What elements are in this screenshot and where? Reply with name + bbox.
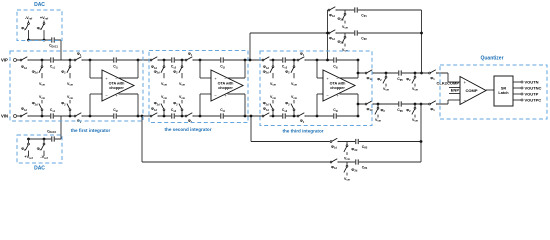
svg-text:DAC: DAC [34,166,45,172]
node branch C tap on bottom rail [250,115,253,118]
switch phi-p +Vref branch (bottom DAC) [28,139,30,156]
switch phi2d to Vcm branch D [346,162,348,166]
switch phi-n -Vref branch (bottom DAC) [43,139,45,156]
node OTA input tap bottom integrator 2 [199,115,202,118]
node OTA input tap bottom integrator 1 [89,115,92,118]
wire output VOUTPC [513,99,521,101]
svg-text:Cff3: Cff3 [362,145,368,150]
svg-text:Φp: Φp [21,27,26,32]
switch phi1d branch A [328,9,336,12]
wire branches A/B down to summing node [421,10,423,73]
svg-text:the first integrator: the first integrator [71,128,111,133]
svg-text:VOUTNC: VOUTNC [525,86,542,91]
wire feedback vertical bottom integrator 2 [244,94,246,116]
capacitor Cff3 [355,139,359,145]
switch phi-p -Vref branch (top DAC) [28,21,30,41]
node branch A tap on top rail [326,59,329,62]
DAC (bottom) dashed box [17,135,62,163]
switch phi1 top integrator 2 [185,59,193,62]
wire tap to OTA bottom input integrator 1 [89,94,91,116]
switch phi1d top-rail entry integrator 2 [150,59,158,62]
wire feedback vertical top integrator 3 [357,60,359,78]
svg-text:chopper: chopper [330,86,345,90]
terminal VOUTNC [521,87,523,89]
capacitor i5 (top integration cap) integrator 3 [333,57,337,63]
switch phi2d to Vcm from bottom node j1 integrator 1 [41,110,43,116]
wire feedforward branch D [142,161,421,163]
switch phi2 to Vcm from top node j2 integrator 3 [293,60,295,66]
switch phi2d to Vcm from top node j1 integrator 3 [272,60,274,66]
node branch C join [420,140,423,143]
svg-text:VIP: VIP [1,57,8,62]
node j1 top integrator 3 [272,59,275,62]
second integrator dashed box [149,51,248,123]
switch phi2d to Vcm from top node j1 integrator 2 [163,60,165,66]
wire feedback vertical bottom integrator 3 [357,94,359,116]
node j2 bottom integrator 3 [293,115,296,118]
capacitor i1 (top integration cap) integrator 1 [113,57,117,63]
switch phi1d top-rail entry integrator 3 [262,59,270,62]
wire tap to OTA top input integrator 3 [316,60,318,78]
third integrator dashed box [260,51,372,126]
capacitor Cff1 [354,7,358,13]
switch phi1d bottom-rail entry integrator 2 [150,115,158,118]
capacitor s2 (top sampling cap) integrator 2 [171,57,175,63]
svg-text:Φp: Φp [21,147,26,152]
switch phi1 quantizer bottom entry [428,103,436,106]
switch phi1d branch C [330,140,338,143]
svg-text:Φ1: Φ1 [430,108,435,113]
node +Vref branch (bottom DAC) [27,138,30,141]
wire OTA1 top output [119,77,139,79]
svg-text:Φ2: Φ2 [377,78,382,83]
node +Vref branch (top DAC) [43,39,46,42]
terminal VIP [14,59,17,62]
wire feedforward branch B [250,32,422,34]
switch phi2d to Vcm branch A [344,10,346,14]
switch phi2 to Vcm bottom chain stub 1 [377,104,379,108]
wire OTA3 top output [340,77,359,79]
switch phi1d branch B [328,32,336,35]
capacitor CDAC1 [51,37,55,43]
wire jog down to comparator + input [447,73,449,82]
wire ENP to comparator [449,93,460,95]
switch phi2 to Vcm from bottom node j2 integrator 3 [293,110,295,116]
switch phi1 bottom integrator 2 [185,115,193,118]
switch phi2d to Vcm from top node j1 integrator 1 [41,60,43,66]
node OTA input tap top integrator 2 [199,59,202,62]
svg-text:Vcm: Vcm [291,82,298,87]
terminal VOUTPC [521,99,523,101]
capacitor s1 (bottom sampling cap) integrator 1 [50,113,54,119]
svg-text:chopper: chopper [218,86,233,90]
node OTA input tap top integrator 3 [316,59,319,62]
wire OTA1 bottom output [119,93,139,95]
svg-text:Φ1d: Φ1d [331,166,337,171]
switch phi2d to Vcm branch C [346,142,348,146]
switch phi1d branch D [330,161,338,164]
svg-text:Vcm: Vcm [270,82,277,87]
svg-text:Latch: Latch [498,91,509,95]
wire bottom DAC output rail [29,138,62,140]
svg-text:the second integrator: the second integrator [165,127,212,132]
switch phi2 to Vcm from bottom node j2 integrator 1 [69,110,71,116]
switch phi1 bottom integrator 3 [297,115,305,118]
capacitor s1 (top sampling cap) integrator 1 [50,57,54,63]
capacitor Cff5 [398,70,402,76]
node j1 bottom integrator 3 [272,115,275,118]
switch phi1d top summing chain [365,72,373,75]
wire feedback vertical bottom integrator 1 [137,94,139,116]
svg-text:Cff1: Cff1 [361,14,367,19]
svg-text:ENP: ENP [451,87,460,92]
wire output VOUTP [513,93,521,95]
wire top DAC output rail [29,39,62,41]
node j2 bottom integrator 1 [69,115,72,118]
node OTA input tap bottom integrator 3 [316,115,319,118]
node branch B join [420,32,423,35]
svg-text:VOUTPC: VOUTPC [525,98,542,103]
op-amp OTA1 (OTA with chopper) [102,70,134,101]
wire CLK2COMP to comparator [449,87,460,89]
svg-text:Cff2: Cff2 [361,37,367,42]
capacitor Cff6 [398,101,402,107]
svg-text:Φ2d: Φ2d [337,17,343,22]
wire branch C vertical tap from second integrator bottom output [250,116,252,142]
svg-text:−: − [464,98,467,103]
node top chain stub 1 [385,72,388,75]
svg-text:Vcm: Vcm [179,82,186,87]
op-amp OTA3 (OTA with chopper) [323,70,355,101]
node j1 bottom integrator 2 [163,115,166,118]
svg-text:VIN: VIN [1,113,8,118]
switch phi2 to Vcm bottom chain stub 2 [414,104,416,108]
wire OTA2 bottom output [228,93,246,95]
wire feedback vertical top integrator 2 [244,60,246,78]
node feedback bottom integrator 2 [244,115,247,118]
svg-text:DAC: DAC [34,2,45,8]
node bottom summing join [420,103,423,106]
switch phi2 to Vcm from bottom node j2 integrator 2 [181,110,183,116]
wire OTA3 bottom output [340,93,359,95]
node third integrator top output tap [357,72,360,75]
switch phi2 to Vcm top chain stub 1 [385,73,387,77]
node top summing join [420,72,423,75]
wire feedforward branch A [328,9,422,11]
capacitor i4 (bottom integration cap) integrator 2 [220,113,224,119]
capacitor s2 (bottom sampling cap) integrator 2 [171,113,175,119]
svg-text:VOUTN: VOUTN [525,80,539,85]
node branch D tap on bottom rail [141,115,144,118]
node branch A/B crossing [326,32,329,35]
capacitor i2 (bottom integration cap) integrator 1 [113,113,117,119]
wire feedback vertical top integrator 1 [137,60,139,78]
switch phi1 top integrator 3 [297,59,305,62]
node j1 bottom integrator 1 [41,115,44,118]
switch phi1d bottom summing chain [365,103,373,106]
wire output VOUTN [513,81,521,83]
switch phi2d to Vcm from bottom node j1 integrator 2 [163,110,165,116]
wire tap to OTA bottom input integrator 2 [199,94,201,116]
svg-text:the third integrator: the third integrator [282,129,323,134]
svg-text:VOUTP: VOUTP [525,92,539,97]
switch phi2d to Vcm from bottom node j1 integrator 3 [272,110,274,116]
wire branch B vertical tap from second integrator output [249,33,251,60]
terminal VIN [14,115,17,118]
svg-text:+Vref: +Vref [40,16,48,21]
node feedback top integrator 2 [244,59,247,62]
capacitor Cff4 [355,159,359,165]
switch phi1 quantizer top entry [428,72,436,75]
svg-text:SR: SR [501,86,507,90]
svg-text:Φ2: Φ2 [381,109,386,114]
node feedback bottom integrator 3 [357,115,360,118]
node feedback top integrator 1 [137,59,140,62]
wire comparator output to SR latch [486,89,494,91]
capacitor i6 (bottom integration cap) integrator 3 [333,113,337,119]
switch phi1d bottom-rail entry integrator 1 [20,115,28,118]
wire VIP top rail [17,59,359,61]
switch phi1 top integrator 1 [74,59,82,62]
svg-text:Φ2: Φ2 [406,109,411,114]
node j2 bottom integrator 2 [181,115,184,118]
svg-text:Φ1d: Φ1d [329,14,335,19]
node j2 top integrator 1 [69,59,72,62]
Quantizer dashed box [440,65,547,119]
svg-text:COMP: COMP [466,88,478,93]
node feedback bottom integrator 1 [137,115,140,118]
svg-text:Φn: Φn [37,147,42,152]
wire tap to OTA top input integrator 2 [199,60,201,78]
node j2 top integrator 2 [181,59,184,62]
wire output VOUTNC [513,87,521,89]
capacitor CDAC2 [51,136,55,142]
op-amp OTA2 (OTA with chopper) [211,70,243,101]
svg-text:Φ2d: Φ2d [351,148,357,153]
SR latch [494,76,513,106]
svg-text:OTA with: OTA with [109,81,126,85]
node bottom chain stub 1 [377,103,380,106]
capacitor Cff2 [354,30,358,36]
svg-text:chopper: chopper [109,86,124,90]
switch phi1d top-rail entry integrator 1 [20,59,28,62]
node bottom chain stub 2 [414,103,417,106]
svg-text:Φ2: Φ2 [406,78,411,83]
switch phi-n +Vref branch (top DAC) [43,21,45,41]
terminal VOUTP [521,93,523,95]
svg-text:Φ2d: Φ2d [337,40,343,45]
capacitor i3 (top integration cap) integrator 2 [220,57,224,63]
switch phi2 to Vcm from top node j2 integrator 2 [181,60,183,66]
capacitor s3 (bottom sampling cap) integrator 3 [282,113,286,119]
wire top summing chain [358,72,448,74]
svg-text:Φ1d: Φ1d [329,37,335,42]
node -Vref branch (bottom DAC) [43,138,46,141]
svg-text:OTA with: OTA with [218,81,235,85]
capacitor s3 (top sampling cap) integrator 3 [282,57,286,63]
node feedback top integrator 3 [357,59,360,62]
wire feedforward branch A vertical tap [327,10,329,60]
node j2 top integrator 3 [293,59,296,62]
switch phi1d bottom-rail entry integrator 3 [262,115,270,118]
wire jog up to comparator - input [447,100,449,104]
node -Vref branch (top DAC) [27,39,30,42]
wire OTA2 top output [228,77,246,79]
comparator COMP [460,77,486,105]
svg-text:Quantizer: Quantizer [480,56,503,62]
svg-text:Vcm: Vcm [161,82,168,87]
node OTA input tap top integrator 1 [89,59,92,62]
wire CDAC2 to bottom rail [60,116,62,139]
svg-text:Φ1: Φ1 [430,77,435,82]
switch phi2 to Vcm top chain stub 2 [414,73,416,77]
svg-text:Φ1d: Φ1d [331,145,337,150]
terminal VOUTN [521,81,523,83]
wire branches C/D up to summing node [420,104,422,162]
svg-text:Cff4: Cff4 [362,166,368,171]
node branch B tap on top rail [249,59,252,62]
DAC (top) dashed box [17,10,62,41]
wire bottom summing chain [358,103,448,105]
wire branch D vertical tap from first integrator bottom output [141,116,143,162]
switch phi2 to Vcm from top node j2 integrator 1 [69,60,71,66]
node j1 top integrator 1 [41,59,44,62]
node third integrator bottom output tap [357,103,360,106]
node top chain stub 2 [414,72,417,75]
switch phi2d to Vcm branch B [344,33,346,37]
svg-text:Φ2d: Φ2d [351,168,357,173]
switch phi1 bottom integrator 1 [74,115,82,118]
wire tap to OTA top input integrator 1 [89,60,91,78]
svg-text:Vcm: Vcm [67,82,74,87]
wire CDAC1 to top rail [60,40,62,60]
wire feedforward branch C [251,141,421,143]
svg-text:OTA with: OTA with [330,81,347,85]
svg-text:-Vref: -Vref [25,16,32,21]
wire VIN bottom rail [17,115,359,117]
wire tap to OTA bottom input integrator 3 [316,94,318,116]
first integrator dashed box [10,51,143,121]
node j1 top integrator 2 [163,59,166,62]
svg-text:Vcm: Vcm [39,82,46,87]
svg-text:Φn: Φn [37,27,42,32]
